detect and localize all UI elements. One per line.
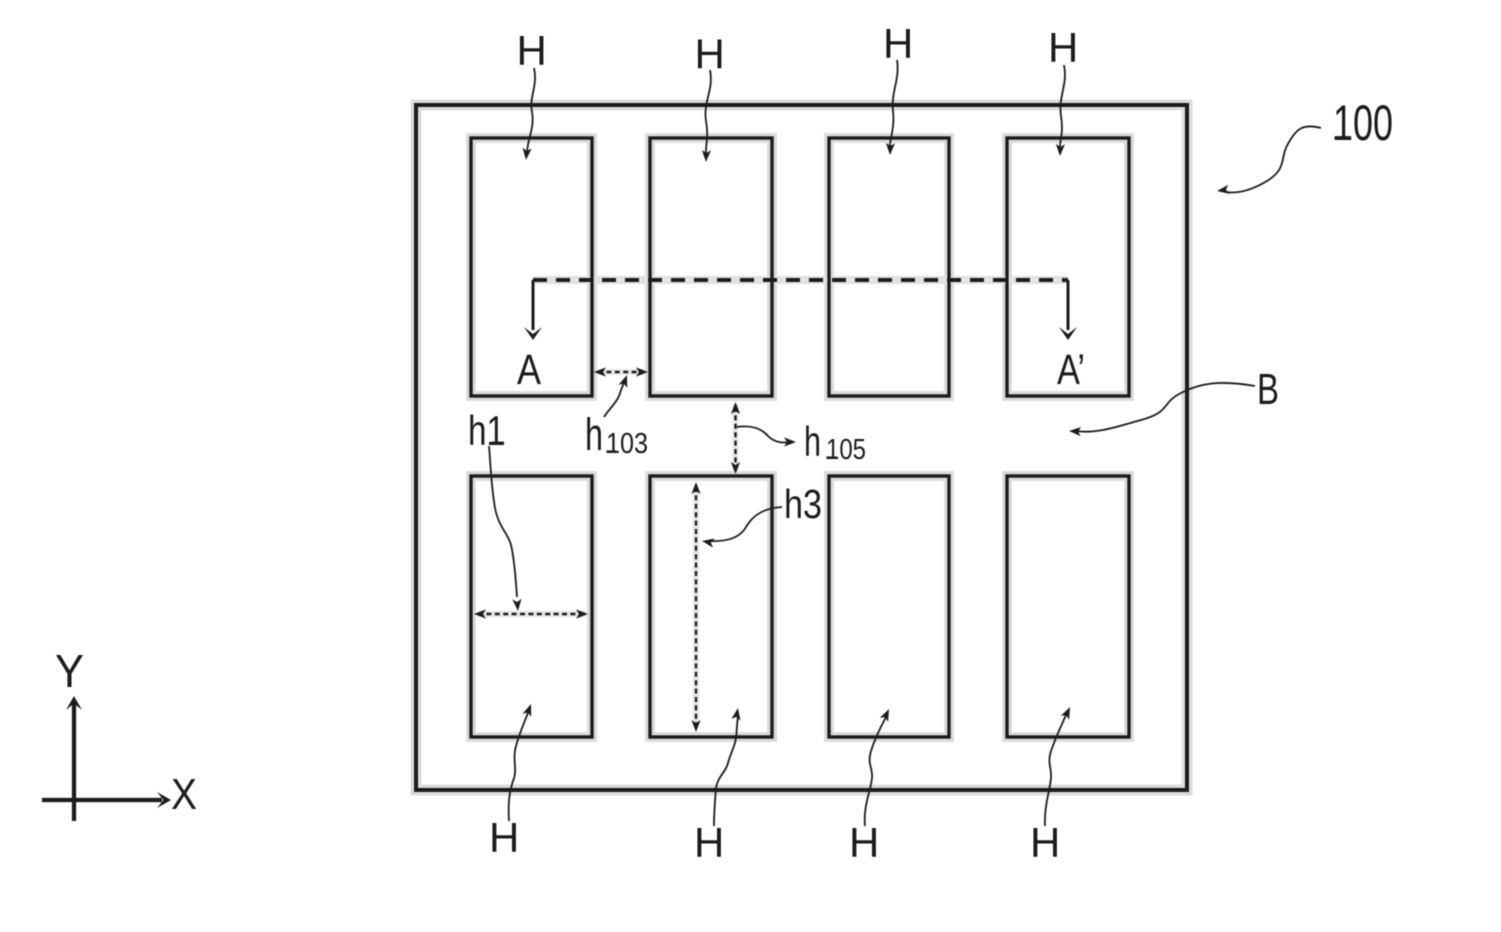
substrate outline 100 [416, 105, 1187, 790]
svg-text:B: B [1257, 365, 1279, 414]
leader h1 [489, 446, 517, 597]
leader h103 [604, 378, 626, 417]
svg-text:h1: h1 [468, 407, 505, 454]
dimension arrow h105 (gap between rows) [734, 407, 736, 470]
svg-text:H: H [489, 814, 519, 861]
hole rect row1 col1 [471, 138, 592, 396]
hole rect row2 col4 [1007, 476, 1129, 737]
dimension arrow h103 (gap between row1 col1 and col2) [598, 371, 644, 373]
leader H bottom3 [865, 717, 886, 826]
leader B [1076, 383, 1255, 432]
leader H top4 [1060, 65, 1065, 149]
leader h105 [737, 426, 790, 442]
section arrow A [532, 280, 535, 330]
svg-text:105: 105 [826, 434, 866, 466]
svg-text:H: H [694, 819, 724, 866]
svg-text:100: 100 [1333, 95, 1393, 151]
hole rect row2 col1 [471, 476, 592, 737]
coordinate axis Y arrow [72, 703, 76, 821]
leader H bottom1 [509, 710, 529, 821]
svg-text:H: H [517, 27, 547, 74]
svg-text:A’: A’ [1057, 346, 1085, 394]
hole rect row2 col3 [829, 476, 949, 737]
svg-text:103: 103 [606, 428, 648, 460]
svg-text:H: H [1030, 819, 1060, 866]
leader h3 [708, 507, 782, 541]
hole rect row1 col4 [1007, 138, 1129, 396]
leader 100 [1226, 126, 1321, 192]
svg-text:H: H [1048, 24, 1078, 71]
leader H top3 [890, 60, 898, 148]
section line A-A' dashed [533, 278, 1068, 282]
svg-text:Y: Y [55, 645, 84, 697]
dimension arrow h1 (width of hole, row2 col1) [478, 613, 586, 615]
svg-text:h3: h3 [784, 481, 822, 527]
leader H bottom2 [714, 716, 738, 826]
svg-text:h: h [585, 409, 603, 460]
hole rect row1 col2 [650, 138, 772, 396]
leader H top1 [527, 68, 535, 153]
hole rect row1 col3 [829, 138, 949, 396]
coordinate axis X arrow [42, 798, 162, 802]
svg-text:h: h [804, 418, 821, 465]
svg-text:X: X [171, 770, 197, 819]
hole rect row2 col2 [650, 476, 772, 737]
dimension arrow h3 (height of hole, row2 col2) [695, 487, 697, 726]
leader H top2 [705, 70, 710, 155]
section arrow A' [1067, 280, 1070, 330]
leader H bottom4 [1045, 715, 1066, 826]
scan halo under main outlines [416, 105, 1187, 790]
svg-text:A: A [517, 346, 541, 394]
svg-text:H: H [883, 20, 913, 67]
